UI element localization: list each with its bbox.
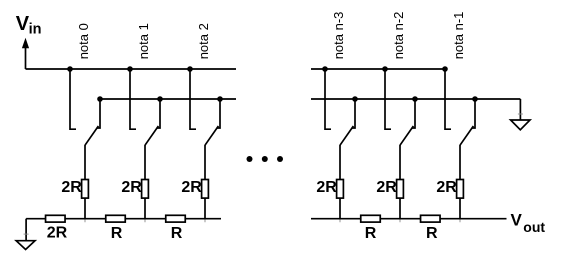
- wire Vin bus to switch bit2 contact a: [190, 69, 196, 129]
- node junction dot bitn3 on ground bus: [352, 96, 358, 102]
- wire resistor 2R bit1 to output rail: [144, 198, 146, 219]
- node Vout label: [511, 210, 546, 234]
- resistor 2R terminator 2R (horizontal): [46, 215, 66, 222]
- node Vin label: [16, 13, 42, 37]
- wire resistor 2R bit0 to output rail: [84, 198, 86, 219]
- wire Vin bus to switch bitn3 contact a: [325, 69, 331, 129]
- wire ground bus to switch bitn2 contact b: [412, 99, 416, 128]
- node junction dot bit0 on ground bus: [97, 96, 103, 102]
- wire ground bus to switch bitn1 contact b: [472, 99, 476, 128]
- node junction dot bit2 on ground bus: [217, 96, 223, 102]
- ground (right, ground bus termination): [511, 99, 530, 130]
- svg-text:in: in: [29, 22, 42, 38]
- switch bit1 lever: [145, 126, 158, 145]
- wire output rail (left section): [26, 218, 221, 220]
- wire resistor 2R bitn3 to output rail: [339, 198, 341, 219]
- wire ground bus to switch bit1 contact b: [157, 99, 161, 128]
- svg-text:R: R: [365, 225, 377, 242]
- resistor R ladder R1 (horizontal): [106, 215, 126, 222]
- resistor R ladder Rn-2 (horizontal): [361, 215, 381, 222]
- switch bitn3 lever: [340, 126, 353, 145]
- resistor 2R bit1 (vertical): [142, 180, 149, 199]
- wire switch bit2 pole to resistor 2R: [204, 145, 206, 180]
- resistor 2R bitn3 (vertical): [337, 180, 344, 199]
- resistor 2R bit0 (vertical): [82, 180, 89, 199]
- resistor 2R bit2 (vertical): [202, 180, 209, 199]
- wire resistor 2R bitn2 to output rail: [399, 198, 401, 219]
- resistor R ladder R2 (horizontal): [166, 215, 186, 222]
- wire Vin bus (left section): [26, 68, 237, 70]
- node junction dot bitn2 on Vin bus: [382, 66, 388, 72]
- wire ground bus to switch bitn3 contact b: [352, 99, 356, 128]
- ground (left, 2R terminator to ground): [16, 219, 35, 250]
- switch bitn1 lever: [460, 126, 473, 145]
- svg-text:R: R: [111, 225, 123, 242]
- svg-text:nota n-3: nota n-3: [331, 12, 346, 60]
- wire Vin bus to switch bit1 contact a: [130, 69, 136, 129]
- svg-text:nota 1: nota 1: [136, 23, 151, 59]
- wire switch bitn3 pole to resistor 2R: [339, 145, 341, 180]
- svg-text:nota n-2: nota n-2: [391, 12, 406, 60]
- wire switch bit1 pole to resistor 2R: [144, 145, 146, 180]
- switch bitn2 lever: [400, 126, 413, 145]
- svg-text:R: R: [426, 225, 438, 242]
- wire Vin bus to switch bitn1 contact a: [445, 69, 451, 129]
- svg-text:2R: 2R: [121, 179, 142, 196]
- node junction dot bit0 on Vin bus: [67, 66, 73, 72]
- node junction dot bit1 on ground bus: [157, 96, 163, 102]
- resistor R ladder Rn-1 (horizontal): [421, 215, 441, 222]
- svg-text:2R: 2R: [181, 179, 202, 196]
- resistor 2R bitn2 (vertical): [397, 180, 404, 199]
- wire Vin bus to switch bit0 contact a: [70, 69, 76, 129]
- svg-text:R: R: [171, 225, 183, 242]
- wire output rail (right section): [311, 218, 507, 220]
- svg-text:2R: 2R: [436, 179, 457, 196]
- wire ground bus (left section): [100, 98, 236, 100]
- wire junction tick marks (faint): [24, 114, 523, 234]
- node junction dot bitn2 on ground bus: [412, 96, 418, 102]
- wire switch bitn1 pole to resistor 2R: [459, 145, 461, 180]
- switch bit2 lever: [205, 126, 218, 145]
- resistor 2R bitn1 (vertical): [457, 180, 464, 199]
- svg-text:2R: 2R: [376, 179, 397, 196]
- svg-text:2R: 2R: [316, 179, 337, 196]
- wire ground bus to switch bit2 contact b: [217, 99, 221, 128]
- node junction dot bitn1 on ground bus: [472, 96, 478, 102]
- svg-text:nota 2: nota 2: [196, 23, 211, 59]
- node junction dot bit2 on Vin bus: [187, 66, 193, 72]
- svg-text:V: V: [511, 210, 523, 229]
- wire switch bit0 pole to resistor 2R: [84, 145, 86, 180]
- wire resistor 2R bitn1 to output rail: [459, 198, 461, 219]
- switch bit0 lever: [85, 126, 98, 145]
- Vin source arrow: [22, 38, 29, 69]
- wire ground bus (right section): [311, 98, 520, 100]
- svg-text:nota 0: nota 0: [76, 23, 91, 59]
- node junction dot bit1 on Vin bus: [127, 66, 133, 72]
- wire Vin bus to switch bitn2 contact a: [385, 69, 391, 129]
- wire ground bus to switch bit0 contact b: [97, 99, 101, 128]
- svg-text:2R: 2R: [61, 179, 82, 196]
- node junction dot bitn1 on Vin bus: [442, 66, 448, 72]
- svg-text:nota n-1: nota n-1: [451, 12, 466, 60]
- node junction dot bitn3 on Vin bus: [322, 66, 328, 72]
- node continuation ellipsis: [247, 156, 284, 162]
- svg-text:out: out: [523, 219, 545, 235]
- svg-text:2R: 2R: [47, 224, 68, 241]
- wire switch bitn2 pole to resistor 2R: [399, 145, 401, 180]
- wire resistor 2R bit2 to output rail: [204, 198, 206, 219]
- wire Vin bus (right section): [311, 68, 445, 70]
